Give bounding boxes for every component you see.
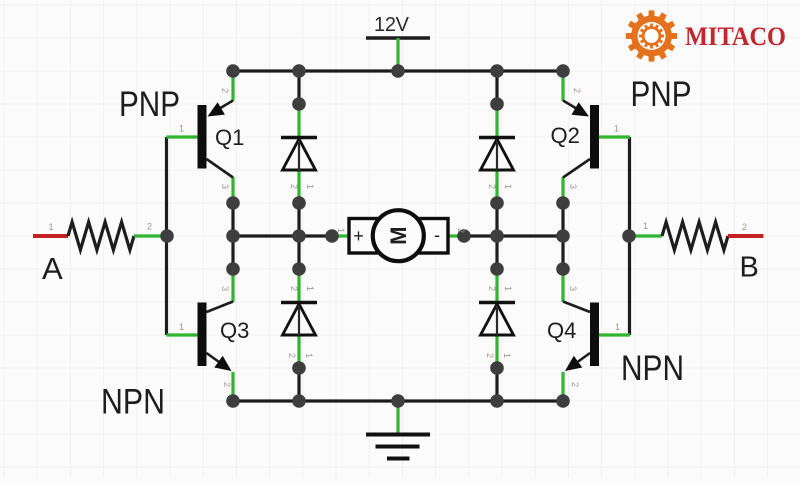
motor M xyxy=(349,210,448,261)
resistor A red lead xyxy=(33,234,68,238)
ground symbol xyxy=(366,435,430,459)
svg-text:2: 2 xyxy=(572,88,582,93)
svg-text:Q4: Q4 xyxy=(547,318,576,343)
svg-text:2: 2 xyxy=(220,88,230,93)
svg-text:NPN: NPN xyxy=(621,349,684,388)
svg-text:PNP: PNP xyxy=(119,85,180,124)
wire left base bus A xyxy=(165,137,168,335)
transistor Q1 (PNP) xyxy=(198,101,245,178)
svg-text:Q2: Q2 xyxy=(551,123,580,148)
svg-text:2: 2 xyxy=(487,286,497,291)
12V supply bar xyxy=(366,36,430,40)
wire middle row left (node to motor) xyxy=(233,234,332,237)
diode D2 (top right) xyxy=(479,136,515,139)
svg-text:2: 2 xyxy=(742,222,747,232)
wire right transistor column xyxy=(561,203,564,269)
svg-text:1: 1 xyxy=(643,221,648,231)
svg-text:1: 1 xyxy=(179,322,184,332)
green wires left diode branch xyxy=(297,104,300,368)
wire left diode column segments xyxy=(297,71,300,401)
transistor Q4 (NPN) xyxy=(547,302,599,372)
diode D3 (bottom left) xyxy=(281,301,317,304)
svg-text:2: 2 xyxy=(289,184,299,189)
wire bottom rail xyxy=(233,399,563,402)
svg-text:+: + xyxy=(353,226,364,246)
svg-text:1: 1 xyxy=(305,286,315,291)
resistor A green lead xyxy=(134,234,167,237)
svg-text:1: 1 xyxy=(304,353,314,358)
svg-text:B: B xyxy=(740,252,759,284)
svg-text:1: 1 xyxy=(502,353,512,358)
resistor A zigzag xyxy=(68,222,134,250)
transistor Q3 (NPN) xyxy=(198,302,250,372)
svg-text:Q3: Q3 xyxy=(220,318,249,343)
resistor B red lead xyxy=(728,234,764,238)
wire right diode column segments xyxy=(495,71,498,401)
wire 12V to top rail xyxy=(396,38,399,71)
resistor B green lead xyxy=(629,234,662,237)
svg-text:1: 1 xyxy=(614,124,619,134)
svg-text:MITACO: MITACO xyxy=(685,22,786,51)
svg-text:3: 3 xyxy=(568,184,578,189)
green wire ground drop xyxy=(396,401,399,434)
wire middle row right (motor to node) xyxy=(464,234,563,237)
svg-text:1: 1 xyxy=(503,184,513,189)
svg-text:PNP: PNP xyxy=(631,75,692,114)
svg-text:A: A xyxy=(42,251,63,286)
wire top rail xyxy=(233,69,563,72)
svg-text:2: 2 xyxy=(570,382,580,387)
svg-text:Q1: Q1 xyxy=(215,125,244,150)
svg-text:1: 1 xyxy=(179,124,184,134)
svg-text:2: 2 xyxy=(485,353,495,358)
svg-text:1: 1 xyxy=(305,184,315,189)
green base wires Q2 Q4 xyxy=(599,137,630,335)
wire left transistor column xyxy=(231,203,234,269)
svg-text:-: - xyxy=(434,225,440,245)
svg-text:1: 1 xyxy=(49,222,54,232)
diode D4 (bottom right) xyxy=(479,301,515,304)
green wires right transistor column xyxy=(561,71,564,401)
svg-text:3: 3 xyxy=(220,184,230,189)
resistor B zigzag xyxy=(662,222,728,250)
svg-text:2: 2 xyxy=(487,184,497,189)
green base wires Q1 Q3 xyxy=(167,137,199,335)
green wires left transistor column xyxy=(231,71,234,401)
svg-text:2: 2 xyxy=(222,382,232,387)
svg-text:2: 2 xyxy=(287,353,297,358)
green wires right diode branch xyxy=(495,104,498,368)
svg-text:3: 3 xyxy=(568,286,578,291)
svg-text:M: M xyxy=(386,227,411,245)
svg-text:2: 2 xyxy=(289,286,299,291)
pin number labels xyxy=(49,88,748,387)
green motor stubs xyxy=(332,234,464,237)
wire right base bus B xyxy=(628,137,631,335)
svg-text:12V: 12V xyxy=(374,14,410,36)
svg-text:2: 2 xyxy=(147,222,152,232)
transistor Q2 (PNP) xyxy=(551,101,600,178)
svg-text:1: 1 xyxy=(336,228,346,233)
svg-text:2: 2 xyxy=(456,228,466,233)
diode D1 (top left) xyxy=(281,136,317,139)
svg-text:NPN: NPN xyxy=(101,383,165,422)
MITACO logo gear xyxy=(626,10,677,61)
svg-text:1: 1 xyxy=(615,322,620,332)
svg-text:3: 3 xyxy=(220,286,230,291)
svg-text:1: 1 xyxy=(503,286,513,291)
